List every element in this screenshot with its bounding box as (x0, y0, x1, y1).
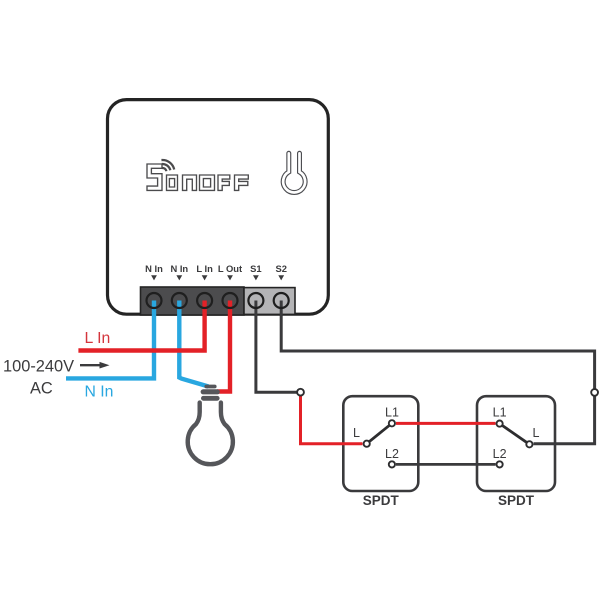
switch SW1 terminal L (364, 441, 370, 447)
label 100-240V (3, 358, 74, 376)
switch SW2 terminal L2 (497, 461, 503, 467)
terminal label S2 (275, 263, 286, 274)
terminal label S1 (250, 263, 261, 274)
wire stub blue terminal 1 (152, 301, 156, 317)
svg-text:N In: N In (85, 384, 114, 401)
wire N In supply (blue) from N In terminal 1 (66, 298, 154, 378)
wire stub black terminal 5 (254, 301, 257, 317)
svg-text:L2: L2 (385, 447, 399, 461)
label L In (supply) (85, 330, 111, 347)
svg-text:S2: S2 (275, 263, 286, 274)
wire L Out to lamp (red) from terminal 4 (217, 298, 230, 392)
Sonoff logo letter n (183, 175, 197, 190)
node B (open circle junction on right) (591, 389, 598, 396)
svg-text:L1: L1 (493, 406, 507, 420)
wire L2 to L2 between switches (black) (396, 463, 496, 466)
switch SW2 box (477, 396, 555, 491)
svg-text:L: L (353, 426, 360, 440)
svg-text:L: L (533, 426, 540, 440)
terminal label L Out (218, 263, 242, 274)
switch SW1 label L2 (385, 447, 399, 461)
wire stub red terminal 3 (202, 301, 206, 317)
switch SW1 lever (367, 423, 392, 443)
terminal label L In (196, 263, 213, 274)
terminal screw 2 (172, 293, 187, 308)
Sonoff logo letter S (147, 164, 162, 190)
svg-text:L Out: L Out (218, 263, 242, 274)
label N In (supply) (85, 384, 114, 401)
svg-text:S1: S1 (250, 263, 261, 274)
switch SW2 label L1 (493, 406, 507, 420)
wire neutral to lamp (blue) from N In terminal 2 (179, 298, 208, 387)
wire L In supply (red) to L In terminal 3 (78, 298, 204, 351)
Sonoff logo letter f1 (218, 175, 230, 190)
svg-text:SPDT: SPDT (363, 493, 400, 508)
arrow marker terminal 4 (227, 275, 233, 280)
wire stub black terminal 6 (280, 301, 283, 317)
touch button icon (283, 153, 305, 192)
lamp DS1 bulb cap bar 3 (201, 396, 220, 401)
Sonoff logo wifi waves (161, 160, 174, 171)
wire S2 (black) from terminal 6 around to switch 2 L terminal (281, 298, 594, 444)
node A (open circle junction) (297, 389, 304, 396)
svg-text:SPDT: SPDT (498, 493, 535, 508)
switch SW1 terminal L2 (389, 461, 395, 467)
arrow marker terminal 1 (151, 275, 157, 280)
svg-text:L2: L2 (493, 447, 507, 461)
Sonoff logo letter o2 (200, 175, 215, 190)
switch SW1 label L (353, 426, 360, 440)
terminal screw 1 (147, 293, 162, 308)
switch SW2 label SPDT (498, 493, 535, 508)
wire L1 to L1 between switches (red) (396, 422, 496, 425)
wire S1 (black) from terminal 5 to node A (256, 298, 297, 392)
arrow 100-240V (80, 362, 110, 369)
terminal screw 3 (197, 293, 212, 308)
arrow marker terminal 2 (176, 275, 182, 280)
wire stub red terminal 4 (228, 301, 232, 317)
svg-text:N In: N In (170, 263, 188, 274)
lamp DS1 bulb cap bar 1 (204, 385, 216, 389)
lamp DS1 bulb glass (188, 403, 233, 465)
Sonoff logo letter f2 (235, 175, 249, 190)
lamp DS1 bulb cap bar 2 (201, 389, 220, 394)
device U1 Sonoff ZBMINI body (108, 100, 329, 315)
svg-text:N In: N In (145, 263, 163, 274)
terminal screw 4 (223, 293, 238, 308)
terminal label N In (2) (170, 263, 188, 274)
switch SW2 lever (500, 424, 530, 445)
terminal label N In (1) (145, 263, 163, 274)
terminal block right (light, S1 S2) (244, 288, 295, 315)
switch SW1 terminal L1 (389, 420, 395, 426)
arrow marker terminal 6 (278, 275, 284, 280)
Sonoff logo letter o1 (167, 175, 178, 190)
svg-text:L In: L In (196, 263, 213, 274)
terminal screw 6 (274, 293, 289, 308)
svg-text:100-240V: 100-240V (3, 358, 74, 376)
label AC (30, 379, 53, 397)
switch SW2 label L (533, 426, 540, 440)
terminal screw 5 (248, 293, 263, 308)
svg-text:AC: AC (30, 379, 53, 397)
svg-text:L In: L In (85, 330, 111, 347)
switch SW1 label SPDT (363, 493, 400, 508)
wire stub blue terminal 2 (177, 301, 181, 317)
svg-text:L1: L1 (385, 406, 399, 420)
switch SW1 label L1 (385, 406, 399, 420)
arrow marker terminal 5 (253, 275, 259, 280)
switch SW1 box (343, 396, 418, 491)
switch SW2 terminal L1 (497, 421, 503, 427)
wire node A to switch 1 L terminal (red) (301, 396, 363, 444)
arrow marker terminal 3 (202, 275, 208, 280)
switch SW2 label L2 (493, 447, 507, 461)
switch SW2 terminal L (526, 441, 532, 447)
terminal block left (dark, N/L terminals) (141, 287, 245, 315)
